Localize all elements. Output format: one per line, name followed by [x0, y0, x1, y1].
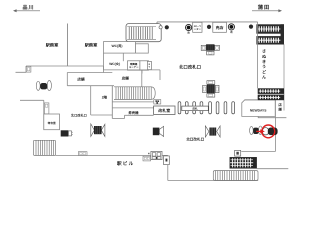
north outer wall	[157, 21, 258, 23]
WC womens area	[104, 53, 124, 70]
gate office box	[154, 106, 175, 115]
narrow box	[147, 61, 151, 69]
svg-text:店舗: 店舗	[121, 76, 130, 81]
NEWDAYS shop	[242, 100, 287, 118]
dot 1	[165, 25, 169, 29]
kiosk box	[213, 22, 227, 32]
north wall connector	[156, 22, 158, 24]
svg-text:ーター: ーター	[194, 27, 202, 31]
small circle pillar	[159, 26, 162, 29]
svg-text:店舗: 店舗	[76, 77, 85, 82]
svg-text:北口改札口: 北口改札口	[71, 113, 87, 117]
ad bobbin A4	[250, 126, 263, 135]
small sign box on wall	[78, 152, 87, 156]
north gate wall vertical	[43, 100, 45, 129]
svg-text:2階: 2階	[102, 96, 108, 100]
blank box right of WC	[136, 44, 149, 53]
column ad symbol C 3-sided	[201, 44, 219, 55]
stairs S2 bottom	[213, 171, 258, 181]
ad sign B2	[153, 126, 164, 136]
wall west horizontal	[26, 65, 104, 67]
direction label Kamata	[252, 4, 282, 12]
south-east wall vertical	[167, 165, 169, 181]
udon shop vertical label	[262, 49, 267, 80]
wall west vertical	[67, 24, 69, 67]
red arrow	[256, 129, 265, 133]
svg-text:舗: 舗	[277, 108, 282, 112]
stairs S5 dark band2	[258, 95, 284, 101]
fare adjust box	[128, 61, 140, 70]
south-east wall horizontal	[168, 180, 258, 182]
blank box	[140, 61, 149, 70]
ring symbol 1	[186, 24, 192, 34]
svg-text:北口改札口: 北口改札口	[179, 64, 201, 69]
svg-text:売店: 売店	[216, 25, 224, 30]
box with mark	[164, 156, 170, 165]
column ad symbol D 4-sided	[203, 81, 219, 97]
stairs S1 west	[34, 140, 56, 155]
east wall vertical	[274, 100, 276, 151]
svg-text:改札室: 改札室	[158, 108, 170, 113]
shop band left	[67, 70, 160, 87]
dot 3	[249, 25, 253, 29]
elevator box EV3	[235, 150, 241, 156]
north gate wall	[20, 99, 44, 101]
svg-text:WC(男): WC(男)	[112, 44, 123, 48]
waiting room box	[44, 114, 60, 130]
svg-text:コーナー: コーナー	[129, 66, 139, 69]
elevator label box	[193, 22, 202, 32]
ticket machine cluster	[148, 151, 162, 159]
svg-text:駅務室: 駅務室	[46, 43, 59, 48]
stairs S7 central band	[114, 87, 155, 100]
svg-text:蒲田: 蒲田	[258, 4, 270, 11]
east corridor wall	[257, 22, 259, 88]
WC block bottom	[104, 69, 161, 71]
shop label vertical east	[277, 103, 282, 112]
path line right of S3	[257, 168, 289, 170]
south concourse wall	[56, 154, 168, 156]
stairs S3 dark	[230, 157, 257, 168]
stairs S6 top center	[126, 24, 161, 42]
svg-text:駅ビル: 駅ビル	[117, 161, 134, 166]
highlighted ad symbol	[263, 128, 278, 136]
dot 2	[207, 25, 211, 29]
line NEWDAYS top to stairs	[245, 99, 258, 101]
svg-text:WC(女): WC(女)	[109, 62, 120, 66]
ticket gate counter bar	[182, 106, 209, 111]
svg-text:駅務室: 駅務室	[85, 43, 98, 48]
small box below wall	[143, 156, 151, 161]
svg-text:券売機: 券売機	[127, 111, 139, 115]
svg-text:ん: ん	[262, 75, 266, 80]
ring symbol 2	[228, 24, 234, 34]
small box at stairs foot	[154, 100, 161, 104]
svg-text:改札: 改札	[192, 107, 198, 111]
svg-text:品川: 品川	[22, 4, 34, 11]
elevator box EV2	[44, 103, 49, 114]
east outer wall	[283, 44, 285, 110]
ad bobbin A3	[205, 126, 220, 137]
svg-text:待合室: 待合室	[48, 121, 56, 125]
central wall vertical	[111, 86, 113, 119]
red highlight circle	[262, 125, 275, 138]
svg-text:北口改札口: 北口改札口	[186, 137, 204, 142]
stairs S4 band2	[256, 24, 284, 44]
wall west step	[16, 66, 27, 72]
concourse lines	[112, 101, 153, 103]
elevator box EV1	[26, 66, 31, 72]
ad bobbin A2	[91, 124, 105, 137]
sign symbol B1	[61, 130, 73, 136]
direction label Shinagawa	[13, 4, 40, 12]
stairs S4 upper right band1	[256, 24, 284, 33]
ticket gate pills	[178, 102, 234, 114]
ad bobbin A1	[36, 80, 51, 90]
svg-text:NEWDAYS: NEWDAYS	[250, 109, 267, 113]
stairs S5 dark band1	[258, 88, 284, 94]
WC mens box	[104, 42, 136, 54]
east wall horizontal	[241, 151, 275, 153]
north corridor walls	[90, 86, 92, 115]
